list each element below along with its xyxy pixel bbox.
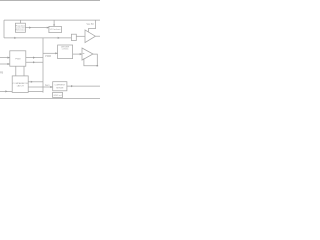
wire: PWM output 2 to trunk [26,61,43,63]
bottom small box [53,92,63,97]
arrow on CS output [71,85,73,87]
wire: long horizontal feed at y=38 [4,37,72,39]
arrow down into UVLO from rail [53,25,55,27]
wire: current sense output to right edge [67,85,100,87]
PWM box [10,51,26,66]
wire: comparator output 2 to current sense [28,86,53,88]
svg-text:UV lockout: UV lockout [50,28,61,31]
arrow into A2 [80,53,82,55]
wire: A2 output right and down [93,54,97,66]
wire: PWM input 2 from left edge [0,63,10,65]
svg-text:GND ref: GND ref [53,94,61,97]
svg-text:PWM: PWM [45,56,51,58]
vertical connector 1 PWM to comparator [15,66,17,76]
wire: rail drop into UVLO [53,20,55,26]
arrow into UVLO [47,27,49,29]
vertical connector 2 PWM to comparator [23,66,25,76]
svg-text:FB: FB [0,71,4,74]
op-amp A1 triangle [85,30,95,43]
svg-text:Isen: Isen [45,85,50,87]
bottom border line [0,98,100,100]
wire: rail left drop at x=4 [3,20,5,38]
wire: comparator output 1 to trunk [28,81,43,83]
wire: PWM input 1 from left edge [0,57,10,59]
arrow comparator output 1 [31,81,33,83]
wire: A1 output to right edge [95,35,100,37]
svg-text:PWM: PWM [15,59,21,61]
A1 supply drop from rail [88,20,95,32]
svg-text:Vcc 5V: Vcc 5V [87,24,95,26]
plus mark inside A2 [83,52,85,55]
wire: comparator bottom output to trunk [28,90,43,92]
arrow into CS box [50,86,52,88]
arrow bottom-left input [5,90,7,92]
junction dot at feedback corner [97,65,99,66]
wire: rail drop into reference box [19,20,21,23]
wire: B4 output to A2 [73,53,82,55]
wire: trunk to B4 input [43,52,58,54]
arrow on feed wire at x=15 [14,37,16,39]
wire: A2 feedback bottom and up into triangle [84,58,97,65]
wire: bottom input from left edge [0,90,12,92]
current sense box [53,82,67,91]
arrows PWM outputs mid-wire [33,57,35,59]
svg-text:Reference: Reference [15,28,26,31]
wire: B5 to amplifier A1 [76,35,85,37]
regulator/reference box U1 [15,23,25,32]
wire: reference box output to UVLO [25,27,49,29]
small box B5 before amp [71,34,76,40]
arrow on feed wire at x=59 [58,37,60,39]
arrow mid-wire on reference output [29,27,31,29]
svg-text:LATCH: LATCH [17,85,24,88]
svg-text:LOGIC: LOGIC [62,49,69,51]
top page border line [0,0,100,2]
wire: VIN top rail [4,19,100,21]
UVLO box U2 [49,26,62,32]
svg-text:CURRENT: CURRENT [54,84,65,86]
vertical trunk x=42 [42,38,44,93]
wire: PWM output 1 to trunk [26,57,43,59]
comparator box [12,76,28,93]
regulator box text [13,24,70,97]
error amp A2 triangle [82,48,93,60]
arrows PWM inputs [8,57,10,59]
arrow into B4 [55,52,57,54]
box B4 driver/logic [58,45,73,59]
svg-text:SENSE: SENSE [56,88,64,90]
